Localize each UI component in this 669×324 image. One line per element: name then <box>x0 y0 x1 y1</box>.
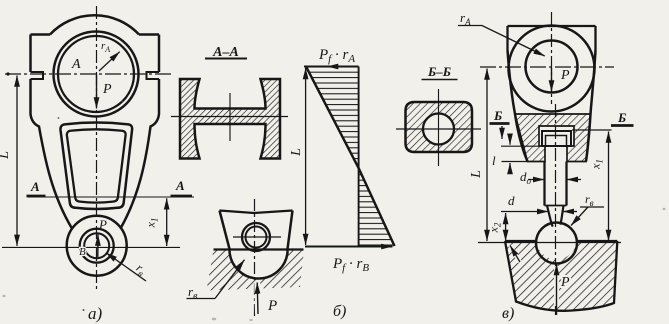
svg-text:d: d <box>508 193 515 208</box>
svg-text:А: А <box>30 179 40 194</box>
svg-text:Р: Р <box>102 82 112 97</box>
svg-text:Р: Р <box>98 217 107 232</box>
svg-text:Р: Р <box>267 298 277 314</box>
svg-text:А: А <box>71 57 81 72</box>
svg-text:Б–Б: Б–Б <box>427 64 451 79</box>
svg-text:в): в) <box>502 305 514 322</box>
svg-text:l: l <box>492 153 496 168</box>
svg-text:L: L <box>289 148 304 157</box>
svg-text:L: L <box>469 170 484 179</box>
svg-text:Р: Р <box>560 68 570 83</box>
svg-text:В: В <box>79 246 86 258</box>
svg-text:Б: Б <box>617 110 626 125</box>
svg-text:Р: Р <box>560 275 570 290</box>
svg-text:б): б) <box>333 303 346 320</box>
svg-text:А–А: А–А <box>212 45 239 60</box>
svg-text:А: А <box>175 178 185 193</box>
svg-text:L: L <box>0 151 12 160</box>
svg-text:Б: Б <box>493 108 502 123</box>
svg-text:а): а) <box>88 304 103 323</box>
